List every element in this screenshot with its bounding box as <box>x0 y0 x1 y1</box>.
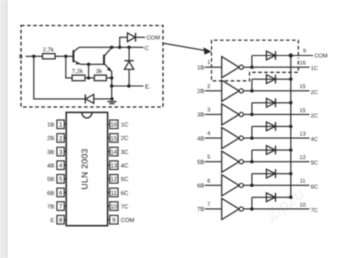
svg-text:1C: 1C <box>121 122 129 129</box>
wire diode D7 row <box>252 196 291 198</box>
wire diode D6 row <box>252 173 291 175</box>
wire input 5B <box>205 161 222 163</box>
pin 5 5B <box>47 175 66 184</box>
node rail junction D5 <box>289 148 292 151</box>
wire riser to diode D7 <box>251 197 253 209</box>
node rail junction D4 <box>289 125 292 128</box>
svg-text:11: 11 <box>300 179 306 185</box>
svg-text:5C: 5C <box>121 176 129 183</box>
wire R3 to Q2 emitter node <box>106 77 111 79</box>
diode D3 input clamp <box>85 94 94 103</box>
svg-text:4: 4 <box>59 163 63 170</box>
svg-text:5C: 5C <box>311 161 318 167</box>
svg-text:E: E <box>50 217 54 224</box>
svg-text:4C: 4C <box>311 137 318 143</box>
svg-text:15: 15 <box>300 84 306 90</box>
svg-text:14: 14 <box>110 149 117 156</box>
svg-text:1: 1 <box>59 122 63 129</box>
svg-text:2C: 2C <box>311 113 318 119</box>
wire clamp diode down to E line <box>128 69 130 86</box>
wire emitter node down to ground line <box>111 78 113 99</box>
ground <box>108 102 117 104</box>
wire output 5C <box>243 161 309 163</box>
svg-text:5: 5 <box>207 155 210 161</box>
wire C line down to clamp diode <box>128 47 130 61</box>
svg-text:2B: 2B <box>197 88 204 95</box>
svg-text:E.: E. <box>145 84 151 90</box>
pin 1 1B <box>47 120 66 129</box>
wire R1 to Q1 base <box>55 55 73 57</box>
resistor R1 2,7k <box>43 54 56 59</box>
inverter U4 <box>222 127 244 148</box>
svg-text:C: C <box>145 45 149 52</box>
node output junction U3 <box>250 113 253 116</box>
svg-text:8: 8 <box>59 217 63 224</box>
svg-text:COM: COM <box>147 35 161 42</box>
wire input 4B <box>205 137 222 139</box>
wire output 2C <box>243 90 309 92</box>
node R2-R3 junction <box>87 76 90 79</box>
svg-text:7: 7 <box>59 203 63 210</box>
pin 8 E <box>50 215 66 224</box>
node COM branch junction <box>118 46 121 49</box>
wire Q1 emitter to Q2 base <box>81 63 104 65</box>
svg-text:4B: 4B <box>47 162 54 169</box>
svg-text:2B: 2B <box>47 135 54 142</box>
pin 16 1C <box>108 120 129 129</box>
wire COM rail <box>290 56 292 197</box>
svg-text:9: 9 <box>303 49 306 55</box>
pin 6 6B <box>47 188 66 197</box>
node rail junction D3 <box>289 101 292 104</box>
diode D4 <box>266 122 275 131</box>
wire output 1C <box>243 66 309 68</box>
diode D2 <box>266 75 275 84</box>
pin 2 2B <box>47 134 66 143</box>
wire output 6C <box>243 184 309 186</box>
wire diode D1 row <box>252 55 291 57</box>
wire junction up to Q2 base wire <box>88 64 90 78</box>
svg-text:6: 6 <box>59 190 63 197</box>
svg-text:1: 1 <box>207 60 210 66</box>
node rail junction D7 <box>289 196 292 199</box>
diode D5 <box>266 146 275 155</box>
wire riser to diode D6 <box>251 174 253 186</box>
svg-text:ULN 2003: ULN 2003 <box>80 148 90 189</box>
wire R2 to R3 <box>85 77 94 79</box>
wire collector line to C <box>79 46 144 48</box>
svg-text:7C: 7C <box>311 208 318 214</box>
svg-text:5B: 5B <box>47 176 54 183</box>
svg-text:3B: 3B <box>197 112 204 119</box>
svg-text:6C: 6C <box>311 184 318 190</box>
svg-text:2: 2 <box>207 84 210 90</box>
diode D6 <box>266 169 275 178</box>
svg-text:1B: 1B <box>197 65 204 71</box>
node output junction U4 <box>250 136 253 139</box>
diode D1 <box>266 51 275 60</box>
svg-text:10: 10 <box>110 203 117 210</box>
wire input 7B <box>205 208 222 210</box>
pin 11 6C <box>108 188 129 197</box>
svg-text:7: 7 <box>207 202 210 208</box>
svg-text:3B: 3B <box>47 149 54 156</box>
diode D1 collector clamp <box>124 61 133 70</box>
inverter U5 <box>222 151 244 172</box>
svg-text:5B: 5B <box>197 160 204 166</box>
wire riser to diode D4 <box>251 126 253 138</box>
wire output 4C <box>243 137 309 139</box>
wire input 6B <box>205 184 222 186</box>
wire Q1 base down to R2 <box>66 56 72 78</box>
node clamp diode bottom junction <box>127 84 130 87</box>
node COM junction <box>289 53 293 57</box>
dashed cell boundary box of internal schematic <box>21 26 163 108</box>
wire Q2 emitter down <box>111 71 113 78</box>
transistor Q2 <box>104 48 112 72</box>
resistor R3 3k <box>94 75 106 81</box>
pin 9 COM <box>108 215 135 224</box>
wire pin 9 COM <box>291 55 313 57</box>
svg-text:16: 16 <box>300 61 306 67</box>
svg-text:6: 6 <box>207 178 210 184</box>
wire input 1B <box>205 66 222 68</box>
svg-text:12: 12 <box>300 155 306 161</box>
pin 4 4B <box>47 161 66 170</box>
svg-text:7B: 7B <box>47 203 54 210</box>
svg-text:7B: 7B <box>197 207 204 213</box>
node output junction U7 <box>250 207 253 210</box>
DIP notch <box>82 112 92 118</box>
node E line junction <box>110 84 113 87</box>
wire E output line <box>112 85 144 87</box>
svg-text:4B: 4B <box>197 136 204 142</box>
svg-text:5: 5 <box>59 176 63 183</box>
wire D2 to COM label <box>136 36 146 38</box>
node divider junction <box>87 63 90 66</box>
svg-text:2,7k: 2,7k <box>43 47 54 54</box>
svg-text:11: 11 <box>111 190 118 197</box>
svg-text:3C: 3C <box>121 149 129 156</box>
inverter U7 <box>222 198 244 219</box>
wire diode D3 row <box>252 102 291 104</box>
wire D3 to ground node <box>94 98 112 100</box>
svg-text:15: 15 <box>110 135 117 142</box>
svg-text:6B: 6B <box>47 190 54 197</box>
svg-text:4C: 4C <box>121 162 129 169</box>
wire output 7C <box>243 208 309 210</box>
inverter U6 <box>222 175 244 196</box>
transistor Q1 <box>73 47 80 64</box>
node rail junction D2 <box>289 77 292 80</box>
pin 12 5C <box>108 175 129 184</box>
node input junction <box>32 55 35 58</box>
svg-text:COM: COM <box>315 54 328 60</box>
svg-text:7C: 7C <box>121 203 129 210</box>
svg-text:2C: 2C <box>121 135 129 142</box>
diode D3 <box>266 98 275 107</box>
svg-text:2C: 2C <box>311 90 318 96</box>
wire input feedback down and along bottom <box>34 56 85 99</box>
wire diode D4 row <box>252 125 291 127</box>
svg-text:6C: 6C <box>121 190 129 197</box>
svg-text:13: 13 <box>110 163 117 170</box>
svg-text:1C: 1C <box>311 66 318 72</box>
node output junction U2 <box>250 89 253 92</box>
pin 10 7C <box>108 202 129 211</box>
wire input B <box>26 55 43 57</box>
wire riser to diode D1 <box>251 56 253 68</box>
node Q2 emitter junction <box>110 76 113 79</box>
wire COM branch <box>120 37 128 47</box>
inverter U1 <box>222 57 244 78</box>
svg-text:6B: 6B <box>197 183 204 190</box>
pin 15 2C <box>108 134 129 143</box>
svg-text:12: 12 <box>110 176 117 183</box>
diode D2 to COM <box>127 33 135 42</box>
wire riser to diode D3 <box>251 103 253 115</box>
svg-text:3: 3 <box>59 149 63 156</box>
svg-text:2: 2 <box>59 135 63 142</box>
svg-text:13: 13 <box>300 131 306 137</box>
wire input 2B <box>205 90 222 92</box>
svg-text:B: B <box>19 55 23 61</box>
svg-text:1B: 1B <box>47 122 54 129</box>
wire output 2C <box>243 113 309 115</box>
node rail junction D1 <box>289 54 292 57</box>
node output junction U6 <box>250 184 253 187</box>
pin 3 3B <box>47 147 66 156</box>
node output junction U5 <box>250 160 253 163</box>
pin 7 7B <box>47 202 66 211</box>
dashed detail outline around driver 1 <box>212 40 299 81</box>
node rail junction D6 <box>289 172 292 175</box>
node Q2 collector junction <box>110 46 113 49</box>
svg-text:3: 3 <box>207 107 210 113</box>
pin 14 3C <box>108 147 129 156</box>
resistor R2 7,2k <box>72 75 85 81</box>
inverter U3 <box>222 104 244 125</box>
svg-text:7,2k: 7,2k <box>72 68 83 75</box>
wire diode D5 row <box>252 149 291 151</box>
svg-text:4: 4 <box>207 131 210 137</box>
svg-text:COM: COM <box>121 217 135 224</box>
svg-text:3k: 3k <box>96 68 102 75</box>
svg-text:16: 16 <box>110 122 117 129</box>
wire riser to diode D2 <box>251 79 253 91</box>
wire input 3B <box>205 113 222 115</box>
wire pointer arrow to detail view <box>163 43 206 50</box>
pin 13 4C <box>108 161 129 170</box>
svg-text:9: 9 <box>112 217 116 224</box>
node output junction U1 <box>250 66 253 69</box>
node ground junction <box>110 97 113 100</box>
wire riser to diode D5 <box>251 150 253 162</box>
svg-text:15: 15 <box>300 108 306 114</box>
diode D7 <box>266 193 275 202</box>
node Q1 base junction <box>64 55 67 58</box>
DIP package U1 body <box>66 112 107 225</box>
inverter U2 <box>222 80 244 101</box>
wire diode D2 row <box>252 78 291 80</box>
node clamp diode top junction <box>127 46 130 49</box>
